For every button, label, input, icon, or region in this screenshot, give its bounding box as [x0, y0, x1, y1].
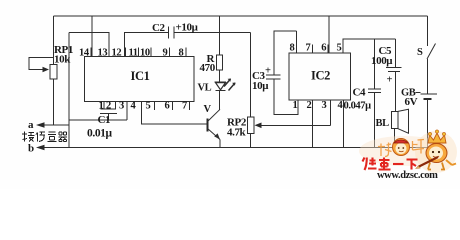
- svg-text:1: 1: [293, 100, 298, 111]
- wire bus drop to IC2 pin6: [328, 16, 330, 53]
- svg-text:a: a: [28, 119, 34, 131]
- capacitor C2: [169, 27, 251, 39]
- watermark dzsc logo: [359, 130, 457, 181]
- svg-text:3: 3: [119, 101, 124, 112]
- svg-text:14: 14: [79, 48, 90, 59]
- LED VL: [215, 79, 236, 110]
- svg-text:5: 5: [146, 101, 151, 112]
- capacitor C4: [368, 39, 381, 147]
- svg-text:S: S: [417, 47, 423, 58]
- IC1 top pin stubs: [91, 48, 186, 57]
- wire IC2 pin3 to RP2 wiper: [329, 100, 331, 125]
- label sensor connection: [22, 132, 67, 142]
- wire top supply bus: [54, 15, 428, 17]
- capacitor C3: [266, 75, 298, 115]
- capacitor C1: [100, 109, 117, 120]
- svg-text:9: 9: [163, 48, 168, 59]
- svg-text:6: 6: [321, 43, 326, 54]
- svg-text:6: 6: [165, 101, 170, 112]
- op IC1 box: [85, 57, 195, 102]
- wire C2 line down to RP2: [250, 33, 252, 118]
- mascot figure right: [416, 130, 457, 170]
- svg-text:11: 11: [129, 48, 138, 59]
- svg-text:8: 8: [290, 43, 295, 54]
- mascot head left: [393, 139, 410, 156]
- node b lead (ground return line): [36, 145, 428, 151]
- svg-text:www.dzsc.com: www.dzsc.com: [377, 170, 438, 181]
- wire bus drop to IC1: [91, 16, 93, 57]
- svg-text:10: 10: [140, 48, 150, 59]
- wire IC1 pin4 to base: [142, 102, 208, 125]
- svg-text:12: 12: [112, 48, 122, 59]
- wire segment B pin 12 to C2: [124, 33, 168, 57]
- svg-text:V: V: [204, 104, 212, 115]
- svg-text:b: b: [28, 143, 34, 155]
- IC1 bottom pin stubs: [104, 102, 190, 110]
- resistor R: [217, 16, 223, 82]
- svg-text:5: 5: [337, 43, 342, 54]
- svg-text:0.01μ: 0.01μ: [87, 128, 113, 140]
- svg-text:IC2: IC2: [311, 69, 330, 83]
- svg-text:+10μ: +10μ: [176, 22, 199, 34]
- IC2 top pin stubs: [296, 45, 343, 54]
- svg-text:1: 1: [99, 101, 104, 112]
- node a lead: [36, 122, 69, 128]
- speaker BL: [391, 109, 408, 147]
- svg-text:7: 7: [306, 43, 311, 54]
- potentiometer RP2: [247, 117, 330, 147]
- wire C3 bridge to IC2 pin8: [274, 31, 296, 75]
- capacitor C5: [386, 39, 402, 111]
- svg-text:C2: C2: [152, 22, 166, 34]
- wire IC1 pin3 L to pin1 node: [69, 102, 127, 120]
- wire IC2 pin5 to C4 C5: [343, 39, 396, 53]
- svg-text:13: 13: [98, 48, 108, 59]
- svg-text:0.047μ: 0.047μ: [344, 101, 372, 112]
- svg-text:C4: C4: [353, 87, 367, 99]
- svg-text:100μ: 100μ: [371, 55, 393, 67]
- svg-text:8: 8: [179, 48, 184, 59]
- svg-text:3: 3: [322, 100, 327, 111]
- svg-text:2: 2: [307, 100, 312, 111]
- wire segment A pins 14-13 top: [69, 33, 109, 57]
- potentiometer RP1: [29, 16, 57, 125]
- svg-text:C1: C1: [98, 114, 111, 126]
- svg-text:VL: VL: [198, 83, 212, 94]
- transistor V: [208, 109, 221, 147]
- svg-text:+: +: [387, 75, 393, 86]
- svg-text:10μ: 10μ: [252, 80, 269, 92]
- op IC2 box: [289, 53, 350, 100]
- switch S: [427, 16, 436, 94]
- wire IC2 pin4 to ground line: [343, 100, 345, 148]
- svg-text:7: 7: [182, 101, 187, 112]
- svg-text:6V: 6V: [405, 96, 418, 108]
- svg-text:2: 2: [106, 101, 111, 112]
- svg-text:470: 470: [200, 62, 216, 74]
- brand text: [363, 158, 418, 171]
- svg-text:BL: BL: [376, 118, 390, 129]
- svg-text:IC1: IC1: [131, 69, 150, 83]
- wire IC2 pin2 to ground line: [312, 100, 314, 148]
- battery GB: [421, 94, 438, 148]
- wire left vertical to IC1: [68, 33, 70, 148]
- svg-text:+: +: [265, 66, 271, 77]
- svg-text:4.7k: 4.7k: [227, 127, 247, 139]
